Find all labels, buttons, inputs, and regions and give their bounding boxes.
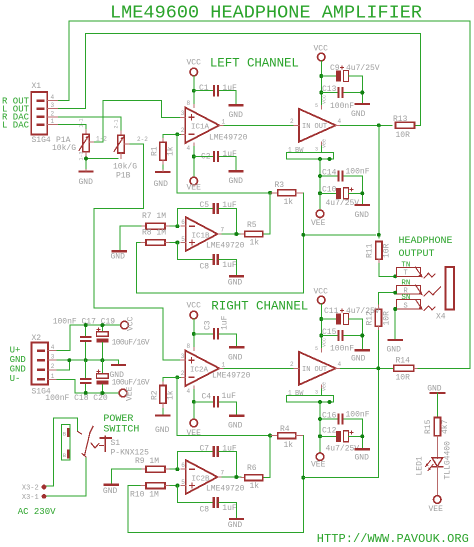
svg-text:VEE: VEE bbox=[311, 219, 326, 228]
node VCC right buffer bbox=[314, 288, 329, 304]
node VEE left channel bbox=[187, 177, 202, 193]
jack X4 ring contact bbox=[396, 280, 440, 296]
wire loop branch to out column bbox=[303, 368, 378, 477]
capacitor C17 bbox=[80, 325, 92, 360]
junction IC1A inverting node bbox=[175, 132, 179, 136]
svg-text:GND: GND bbox=[351, 355, 366, 364]
ground R7 bbox=[111, 251, 126, 261]
capacitor C7 bbox=[177, 445, 237, 478]
junction C12 tap bbox=[318, 434, 322, 438]
svg-text:1: 1 bbox=[222, 118, 226, 125]
svg-text:OUT: OUT bbox=[315, 123, 328, 131]
pin BW right buffer bbox=[287, 389, 334, 404]
junction IC1B - bbox=[175, 224, 179, 228]
svg-text:2: 2 bbox=[181, 127, 185, 134]
junction C4 tap bbox=[192, 400, 196, 404]
pin BW left buffer bbox=[287, 146, 334, 161]
svg-text:P1B: P1B bbox=[116, 172, 131, 181]
junction tip bbox=[393, 274, 397, 278]
ground C11 C15 bbox=[351, 319, 369, 364]
diode LED1 bbox=[416, 441, 453, 480]
svg-text:TLLG4400: TLLG4400 bbox=[444, 441, 453, 480]
svg-text:VEE: VEE bbox=[126, 386, 135, 401]
svg-text:GND: GND bbox=[154, 180, 169, 189]
svg-text:C1: C1 bbox=[199, 84, 209, 93]
node VEE LED bbox=[429, 496, 444, 514]
svg-text:3: 3 bbox=[315, 390, 318, 396]
svg-text:1uF: 1uF bbox=[222, 84, 237, 93]
ground LED top bbox=[427, 385, 444, 394]
svg-text:2: 2 bbox=[51, 363, 55, 370]
junction loop node bbox=[301, 233, 305, 237]
svg-text:GND: GND bbox=[10, 355, 26, 365]
svg-text:OUTPUT: OUTPUT bbox=[399, 249, 435, 260]
svg-text:LME49720: LME49720 bbox=[212, 372, 251, 381]
svg-text:BW: BW bbox=[295, 390, 304, 398]
svg-text:7: 7 bbox=[221, 227, 225, 234]
svg-text:5: 5 bbox=[315, 346, 318, 352]
capacitor C4 bbox=[194, 392, 237, 408]
svg-text:6: 6 bbox=[181, 462, 185, 469]
wire R6 right up to R4 left bbox=[263, 436, 270, 478]
buffer U-left LME49600 bbox=[290, 95, 342, 153]
capacitor C11 polarized bbox=[321, 307, 380, 325]
svg-text:3: 3 bbox=[181, 353, 185, 360]
svg-text:1k: 1k bbox=[284, 441, 294, 450]
capacitor C16 bbox=[320, 411, 370, 425]
wire X2 pin4 to VCC rail bbox=[57, 325, 121, 351]
svg-text:R8 1M: R8 1M bbox=[142, 229, 166, 238]
svg-text:6: 6 bbox=[181, 219, 185, 226]
wire X2 pin2 to GND row bbox=[57, 360, 69, 370]
junction R3 left bbox=[268, 191, 272, 195]
svg-text:VEE: VEE bbox=[311, 461, 326, 470]
svg-text:3: 3 bbox=[51, 102, 55, 109]
svg-text:OUT: OUT bbox=[315, 366, 328, 374]
wire R7 right to - node bbox=[170, 225, 177, 227]
svg-text:X3-1: X3-1 bbox=[22, 494, 39, 502]
svg-text:HTTP://WWW.PAVOUK.ORG: HTTP://WWW.PAVOUK.ORG bbox=[317, 532, 469, 546]
op-amp IC2A bbox=[180, 343, 250, 395]
ground C14 C10 bbox=[355, 176, 370, 220]
junction C19 bottom bbox=[100, 358, 104, 362]
ground C16 C12 bbox=[355, 419, 370, 463]
capacitor C12 polarized bbox=[320, 426, 362, 453]
svg-text:1k: 1k bbox=[167, 146, 176, 156]
wire VCC to buffer top bbox=[320, 61, 322, 106]
capacitor C10 polarized bbox=[320, 185, 362, 208]
wire R7 left to GND bbox=[120, 226, 141, 249]
svg-text:GND: GND bbox=[103, 487, 118, 496]
svg-text:S1G4: S1G4 bbox=[32, 136, 51, 145]
svg-text:IC1B: IC1B bbox=[192, 232, 211, 240]
resistor R13 bbox=[393, 115, 415, 140]
junction out column bbox=[377, 233, 381, 237]
svg-text:5: 5 bbox=[181, 479, 185, 486]
svg-text:4u7/25V: 4u7/25V bbox=[326, 199, 360, 208]
junction IC1B + bbox=[175, 241, 179, 245]
junction sleeve bbox=[393, 307, 397, 311]
svg-text:1uF: 1uF bbox=[222, 445, 237, 454]
svg-text:1: 1 bbox=[222, 361, 226, 368]
svg-text:1-2: 1-2 bbox=[96, 135, 107, 142]
svg-text:5: 5 bbox=[181, 236, 185, 243]
svg-text:L DAC: L DAC bbox=[2, 120, 30, 130]
svg-text:1uF: 1uF bbox=[222, 504, 237, 513]
node VEE right buffer bbox=[311, 453, 326, 470]
wire IC2B out bbox=[222, 476, 241, 478]
svg-text:vcc: vcc bbox=[322, 95, 328, 104]
svg-text:RN: RN bbox=[401, 280, 410, 288]
svg-text:2: 2 bbox=[51, 110, 55, 117]
wire R11 bottom to jack tip bbox=[379, 264, 397, 277]
svg-text:1: 1 bbox=[51, 373, 55, 380]
svg-text:RIGHT CHANNEL: RIGHT CHANNEL bbox=[211, 299, 308, 313]
svg-text:IN: IN bbox=[302, 123, 310, 131]
svg-text:SN: SN bbox=[401, 294, 410, 302]
svg-text:3: 3 bbox=[51, 354, 55, 361]
svg-text:10R: 10R bbox=[383, 243, 392, 258]
svg-text:100nF C17 C19: 100nF C17 C19 bbox=[53, 318, 116, 327]
svg-text:T: T bbox=[404, 270, 408, 278]
svg-text:VEE: VEE bbox=[429, 505, 444, 514]
svg-text:3: 3 bbox=[181, 110, 185, 117]
wire R3 right down to output node bbox=[137, 193, 304, 293]
svg-text:S: S bbox=[404, 303, 408, 311]
svg-text:LME49720: LME49720 bbox=[209, 133, 248, 142]
svg-text:GND: GND bbox=[228, 279, 243, 288]
svg-text:1k: 1k bbox=[284, 198, 294, 207]
junction P1A bottom bbox=[84, 157, 88, 161]
junction buffer out bbox=[377, 123, 381, 127]
resistor R15 bbox=[424, 418, 450, 441]
svg-text:4: 4 bbox=[338, 118, 342, 125]
svg-text:8: 8 bbox=[187, 343, 191, 350]
svg-text:C7: C7 bbox=[200, 445, 210, 454]
svg-text:2-2: 2-2 bbox=[137, 136, 148, 143]
resistor R7 bbox=[141, 212, 170, 229]
ground X2 bbox=[110, 360, 126, 380]
wire R12 down to right out node bbox=[377, 331, 379, 369]
svg-text:GND: GND bbox=[79, 178, 94, 187]
svg-text:GND: GND bbox=[355, 454, 370, 463]
junction C2 tap bbox=[192, 155, 196, 159]
svg-text:R11: R11 bbox=[366, 243, 375, 258]
junction C17 bottom bbox=[84, 358, 88, 362]
svg-text:R2: R2 bbox=[151, 390, 160, 400]
junction right out bbox=[376, 366, 380, 370]
wire R15 to LED bbox=[436, 440, 438, 459]
junction IC2A inverting node bbox=[175, 375, 179, 379]
svg-text:2: 2 bbox=[290, 361, 294, 368]
wire IC2A out to buffer in bbox=[224, 367, 294, 369]
svg-text:4: 4 bbox=[51, 344, 55, 351]
ground R2 bbox=[155, 416, 170, 436]
svg-text:10k/G: 10k/G bbox=[113, 163, 137, 172]
ground C8 bbox=[228, 276, 243, 287]
wire buffer out bbox=[341, 124, 393, 126]
svg-text:BW: BW bbox=[295, 147, 304, 155]
svg-text:1k: 1k bbox=[250, 239, 260, 248]
resistor R8 bbox=[141, 229, 170, 246]
wire R1 bottom to GND bbox=[162, 165, 164, 170]
wire R9 right to - node bbox=[170, 468, 177, 470]
svg-text:GND: GND bbox=[387, 346, 402, 355]
svg-text:100uF/16V: 100uF/16V bbox=[112, 378, 150, 387]
svg-text:4u7/25V: 4u7/25V bbox=[326, 445, 360, 454]
svg-text:GND: GND bbox=[355, 211, 370, 220]
terminal X3-2 bbox=[22, 485, 46, 493]
svg-text:VCC: VCC bbox=[314, 45, 329, 54]
svg-text:1uF: 1uF bbox=[222, 392, 237, 401]
svg-text:X1: X1 bbox=[32, 82, 42, 91]
junction C18 bottom bbox=[84, 391, 88, 395]
node VCC left channel bbox=[187, 59, 202, 76]
svg-text:4u7/25V: 4u7/25V bbox=[346, 307, 380, 316]
node VEE right channel bbox=[187, 419, 202, 438]
junction C10 tap bbox=[318, 191, 322, 195]
svg-text:VCC: VCC bbox=[314, 288, 329, 297]
junction IC1B out bbox=[234, 232, 238, 236]
svg-text:4: 4 bbox=[338, 361, 342, 368]
svg-text:vcc: vcc bbox=[322, 338, 328, 347]
capacitor C19 polarized bbox=[97, 325, 109, 360]
svg-text:LME49720: LME49720 bbox=[206, 242, 245, 251]
wire IC1A - to stub bbox=[177, 133, 180, 135]
wire R10 right to + node bbox=[170, 485, 177, 487]
svg-text:100nF C18 C20: 100nF C18 C20 bbox=[45, 394, 108, 403]
svg-text:GND: GND bbox=[228, 353, 243, 362]
junction C17 top bbox=[84, 323, 88, 327]
resistor R11 bbox=[366, 242, 392, 264]
ground C9 C13 bbox=[351, 76, 369, 119]
potentiometer P1A bbox=[52, 118, 107, 160]
svg-text:IC2A: IC2A bbox=[190, 367, 209, 375]
junction C1 tap bbox=[192, 89, 196, 93]
svg-text:GND: GND bbox=[228, 521, 243, 530]
svg-text:4u7/25V: 4u7/25V bbox=[346, 64, 380, 73]
svg-text:2-1: 2-1 bbox=[114, 119, 120, 128]
svg-text:GND: GND bbox=[229, 177, 244, 186]
wire R2 top to - node bbox=[163, 377, 177, 381]
svg-text:1-3: 1-3 bbox=[79, 151, 85, 160]
svg-text:1uF: 1uF bbox=[221, 315, 230, 330]
svg-text:C8: C8 bbox=[200, 263, 210, 272]
svg-text:C8: C8 bbox=[200, 505, 210, 514]
wire R9 left to GND bbox=[111, 469, 141, 483]
wire VCC to IC2A top bbox=[193, 319, 195, 348]
svg-text:10R: 10R bbox=[396, 374, 411, 383]
node VCC right channel bbox=[187, 302, 202, 319]
wire X3-2 to switch top bbox=[47, 418, 78, 486]
svg-text:LEFT CHANNEL: LEFT CHANNEL bbox=[210, 56, 299, 70]
svg-text:3: 3 bbox=[315, 147, 318, 153]
capacitor C15 bbox=[321, 328, 362, 354]
ground C2 bbox=[229, 157, 244, 187]
svg-text:C12: C12 bbox=[322, 426, 337, 435]
buffer U-right LME49600 bbox=[290, 338, 342, 396]
wire feedback R3 to IC1A - bbox=[177, 134, 270, 193]
capacitor C8 bbox=[177, 243, 237, 275]
svg-text:IN: IN bbox=[302, 366, 310, 374]
svg-text:U+: U+ bbox=[10, 345, 21, 355]
junction C19 top bbox=[100, 323, 104, 327]
capacitor C2 bbox=[194, 150, 237, 162]
junction C14 tap bbox=[318, 174, 322, 178]
resistor R1 bbox=[151, 138, 176, 166]
svg-text:vee: vee bbox=[322, 382, 328, 391]
wire P1A wiper to IC1A + bbox=[94, 101, 180, 142]
wire R2 bottom to GND bbox=[162, 409, 164, 415]
wire R4 right down to loop bbox=[128, 436, 303, 533]
svg-text:100nF: 100nF bbox=[346, 411, 370, 420]
svg-text:4k7: 4k7 bbox=[441, 419, 450, 434]
node VCC power bbox=[121, 316, 136, 331]
capacitor C1 bbox=[194, 84, 237, 96]
ground under R1 bbox=[154, 170, 170, 189]
ground sleeve bbox=[387, 340, 402, 355]
wire feedback R4 to IC2A - bbox=[177, 377, 270, 435]
wire IC1A out to buffer in bbox=[224, 124, 294, 126]
ground C1 bbox=[229, 91, 244, 120]
wire net LOUT top loop bbox=[57, 34, 420, 126]
svg-text:R5: R5 bbox=[247, 221, 257, 230]
wire P1B wiper to IC2A + (long) bbox=[94, 144, 180, 360]
wire IC1A vee down bbox=[193, 147, 195, 178]
node VEE left buffer bbox=[311, 210, 326, 228]
svg-text:vee: vee bbox=[322, 139, 328, 148]
ground C4 bbox=[228, 402, 243, 431]
wire R14 right to edge loop bbox=[418, 367, 470, 369]
svg-text:VCC: VCC bbox=[187, 59, 202, 68]
junction C20 bottom bbox=[100, 391, 104, 395]
wire X3-1 to switch bottom bbox=[47, 457, 87, 496]
junction IC2B + bbox=[175, 484, 179, 488]
resistor R12 bbox=[366, 305, 392, 331]
ground C8 right bbox=[228, 519, 243, 530]
op-amp IC2B bbox=[181, 460, 245, 494]
capacitor C14 bbox=[320, 168, 370, 182]
connector X1 bbox=[31, 82, 57, 145]
capacitor C18 bbox=[80, 360, 92, 393]
ground under P1A bbox=[79, 170, 94, 188]
wire net LDAC to P1A bbox=[57, 125, 86, 131]
svg-text:LME49600 HEADPHONE AMPLIFIER: LME49600 HEADPHONE AMPLIFIER bbox=[110, 3, 422, 24]
junction R4 left bbox=[268, 434, 272, 438]
junction C16 tap bbox=[318, 417, 322, 421]
svg-text:2: 2 bbox=[290, 118, 294, 125]
junction C9 tap bbox=[319, 74, 323, 78]
ground C3 bbox=[228, 334, 243, 362]
svg-text:R15: R15 bbox=[424, 419, 433, 434]
wire right buffer out bbox=[341, 367, 394, 369]
svg-text:GND: GND bbox=[155, 426, 170, 435]
svg-text:4: 4 bbox=[51, 94, 55, 101]
potentiometer P1B bbox=[113, 119, 148, 180]
terminal X3-1 bbox=[22, 494, 46, 502]
junction IC2B out bbox=[234, 475, 238, 479]
junction C11 tap bbox=[319, 317, 323, 321]
capacitor C5 bbox=[177, 201, 237, 234]
svg-text:2: 2 bbox=[181, 370, 185, 377]
svg-text:1-1: 1-1 bbox=[79, 118, 85, 127]
wire IC2A - stub bbox=[177, 376, 180, 378]
wire buffer vee down bbox=[319, 159, 321, 210]
svg-text:10R: 10R bbox=[396, 131, 411, 140]
svg-text:1uF: 1uF bbox=[222, 261, 237, 270]
svg-text:100uF/16V: 100uF/16V bbox=[112, 338, 150, 347]
svg-text:1k: 1k bbox=[250, 482, 260, 491]
resistor R10 bbox=[130, 483, 170, 500]
op-amp IC1B bbox=[181, 217, 245, 251]
wire LED to VEE bbox=[436, 467, 438, 496]
svg-text:AC 230V: AC 230V bbox=[18, 507, 56, 517]
svg-text:HEADPHONE: HEADPHONE bbox=[399, 236, 453, 247]
svg-text:GND: GND bbox=[111, 253, 126, 262]
wire R1 top to IC1A - node bbox=[163, 134, 177, 137]
svg-text:4: 4 bbox=[187, 388, 191, 395]
op-amp IC1A bbox=[180, 100, 247, 152]
node VEE power bbox=[119, 386, 134, 401]
resistor R6 bbox=[241, 464, 263, 491]
svg-text:SWITCH: SWITCH bbox=[103, 424, 139, 435]
resistor R14 bbox=[394, 357, 418, 383]
svg-text:1uF: 1uF bbox=[222, 201, 237, 210]
wire X2 pin3 GND row bbox=[57, 359, 118, 361]
svg-text:VEE: VEE bbox=[187, 429, 202, 438]
resistor R9 bbox=[135, 457, 170, 472]
capacitor C8 right channel bbox=[177, 486, 237, 518]
svg-text:P-KNX125: P-KNX125 bbox=[111, 449, 150, 458]
svg-text:VCC: VCC bbox=[127, 316, 136, 331]
junction C3 tap bbox=[192, 332, 196, 336]
resistor R4 bbox=[270, 425, 303, 450]
svg-text:IC1A: IC1A bbox=[191, 124, 210, 132]
resistor R5 bbox=[241, 221, 263, 248]
wire net RDAC to P1B bbox=[57, 117, 121, 131]
wire net ROUT top loop bbox=[57, 21, 470, 368]
svg-text:GND: GND bbox=[10, 365, 26, 375]
svg-text:4: 4 bbox=[187, 145, 191, 152]
wire VCC to IC1A top bbox=[193, 76, 195, 105]
jack X4 tip contact bbox=[396, 261, 435, 278]
node VCC left buffer bbox=[314, 45, 329, 61]
svg-text:X4: X4 bbox=[436, 313, 446, 322]
capacitor C3 bbox=[194, 315, 237, 339]
svg-text:5: 5 bbox=[315, 103, 318, 109]
junction right loop node bbox=[301, 476, 305, 480]
wire IC2A vee down bbox=[193, 390, 195, 420]
ground R9 bbox=[103, 485, 118, 496]
jack X4 sleeve contact bbox=[396, 294, 434, 311]
svg-text:LME49720: LME49720 bbox=[206, 485, 245, 494]
wire R5 right up to R3 left bbox=[263, 193, 270, 234]
svg-text:R14: R14 bbox=[396, 357, 411, 366]
svg-text:R1: R1 bbox=[151, 146, 160, 156]
junction pin2 tie bbox=[67, 358, 71, 362]
svg-text:R3: R3 bbox=[275, 181, 285, 190]
svg-text:100nF: 100nF bbox=[346, 168, 370, 177]
junction C13 tap bbox=[319, 91, 323, 95]
wire ring row to R12 bbox=[378, 293, 396, 305]
svg-text:S1: S1 bbox=[111, 439, 121, 448]
switch S1 bbox=[78, 427, 149, 458]
svg-text:U-: U- bbox=[10, 374, 21, 384]
wire IC1B out bbox=[222, 233, 241, 235]
svg-text:10R: 10R bbox=[383, 311, 392, 326]
svg-text:1k: 1k bbox=[167, 390, 176, 400]
wire right buffer vee down bbox=[319, 402, 321, 453]
